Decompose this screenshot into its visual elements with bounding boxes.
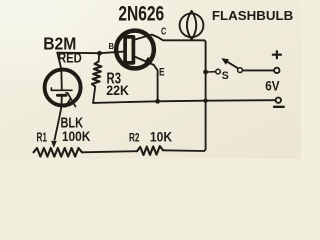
wire R2 to right riser up to minus rail bbox=[163, 72, 206, 151]
transistor emitter line bbox=[135, 57, 154, 65]
transistor collector line and wire to flashbulb corner bbox=[135, 35, 206, 73]
switch S contact 2 bbox=[238, 68, 243, 73]
resistor R3 zigzag with leads bbox=[92, 53, 102, 103]
photocell short plate bbox=[57, 94, 66, 97]
plus battery terminal circle bbox=[274, 68, 279, 73]
node B junction dot bbox=[97, 51, 102, 56]
photocell long plate bbox=[51, 88, 72, 91]
wire: RED lead from photocell top to corner and base junction bbox=[57, 53, 100, 90]
svg-text:RED: RED bbox=[58, 50, 82, 65]
svg-text:22K: 22K bbox=[106, 83, 129, 98]
wire: emitter down to ground rail bbox=[154, 65, 158, 101]
svg-text:E: E bbox=[159, 66, 165, 78]
svg-text:C: C bbox=[161, 27, 167, 38]
minus sign bbox=[274, 106, 284, 108]
wire: junction to switch contact bbox=[208, 71, 216, 73]
wire: ground rail from R3 bottom to minus terminal bbox=[93, 100, 276, 103]
wire: base wire junction to transistor bbox=[100, 52, 124, 54]
plus sign bbox=[273, 51, 281, 58]
svg-text:10K: 10K bbox=[150, 129, 172, 144]
svg-text:S: S bbox=[222, 70, 229, 82]
node emitter junction dot bbox=[155, 99, 160, 104]
flashbulb envelope circle bbox=[180, 13, 204, 37]
svg-text:R2: R2 bbox=[129, 130, 140, 144]
node switch junction dot bbox=[203, 70, 208, 75]
transistor base bar bbox=[125, 37, 133, 63]
svg-text:R1: R1 bbox=[37, 130, 48, 145]
transistor Q1 2N626 circle bbox=[116, 31, 154, 69]
resistor R1 zigzag bbox=[34, 148, 83, 157]
resistor R2 zigzag bbox=[137, 146, 163, 155]
svg-text:FLASHBULB: FLASHBULB bbox=[212, 8, 293, 23]
switch S blade with arrowhead bbox=[222, 59, 238, 69]
svg-text:2N626: 2N626 bbox=[118, 2, 164, 25]
node minus rail junction dot bbox=[203, 99, 207, 103]
flashbulb filament loop bbox=[187, 11, 196, 40]
emitter arrowhead bbox=[145, 58, 152, 64]
wire: BLK lead from photocell bottom to R1 wiper arrow bbox=[52, 96, 62, 148]
wire: switch to plus terminal bbox=[243, 69, 274, 71]
paper background bbox=[0, 0, 301, 159]
svg-text:6V: 6V bbox=[265, 77, 280, 93]
svg-text:100K: 100K bbox=[62, 129, 91, 145]
photocell B2M circle bbox=[45, 70, 81, 106]
minus battery terminal circle bbox=[276, 98, 281, 103]
switch S contact 1 bbox=[216, 69, 221, 74]
label lambda inside photocell bbox=[65, 93, 75, 107]
svg-text:B: B bbox=[109, 41, 115, 51]
wire R1 to R2 bbox=[82, 151, 137, 152]
